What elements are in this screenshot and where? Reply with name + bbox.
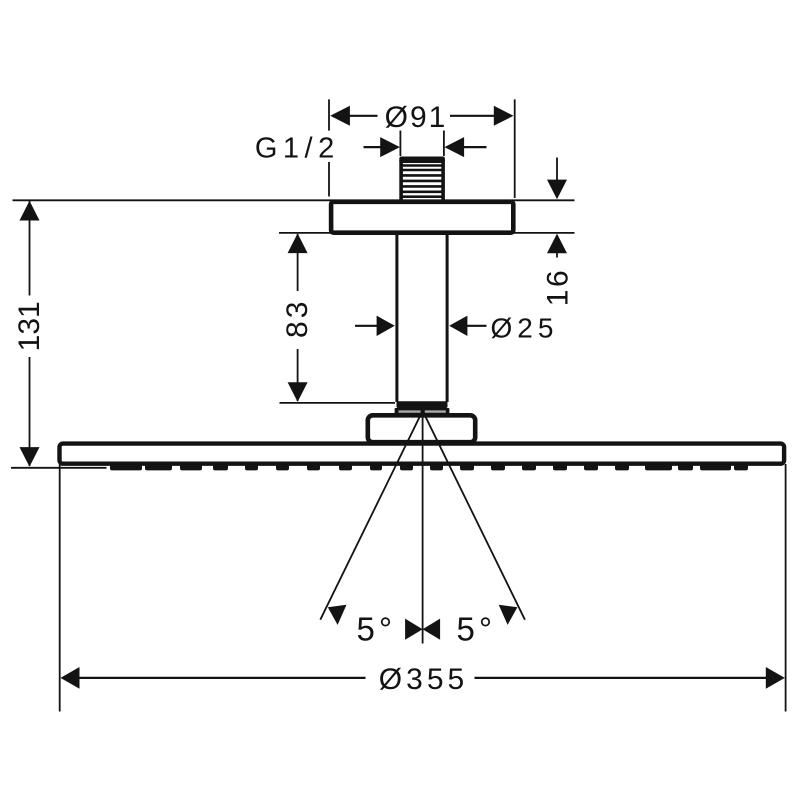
svg-text:Ø91: Ø91 xyxy=(385,101,448,134)
pipe end highlight gaps xyxy=(399,410,421,412)
G1/2 arrows xyxy=(364,146,384,148)
dimension 16 lines xyxy=(556,158,558,182)
svg-text:Ø25: Ø25 xyxy=(491,313,559,344)
dimension O91 line xyxy=(348,115,378,117)
dimension 83 bottom extension line xyxy=(280,402,396,404)
spray left arrowhead xyxy=(328,605,347,625)
dimension 16 arrows xyxy=(547,180,567,200)
pipe end collar xyxy=(397,401,448,408)
svg-text:5°: 5° xyxy=(357,611,397,648)
pipe left wall xyxy=(395,235,398,402)
svg-text:16: 16 xyxy=(541,268,574,306)
spray left line xyxy=(320,411,422,620)
dimension 83 line xyxy=(297,234,299,291)
dimension O91 arrows xyxy=(330,106,350,126)
svg-text:83: 83 xyxy=(281,299,314,338)
svg-text:131: 131 xyxy=(13,301,46,351)
flange (ceiling escutcheon) xyxy=(331,202,513,233)
pipe right wall xyxy=(446,235,449,402)
dimension O355 arrows xyxy=(61,667,80,689)
dimension 131 line xyxy=(29,201,31,296)
spray right arrowhead xyxy=(499,605,518,625)
thread right wall xyxy=(441,160,445,200)
spray nozzle dashes xyxy=(110,464,748,470)
spray angle bowtie arrows xyxy=(405,619,423,640)
dimension 83 arrows xyxy=(288,233,308,253)
flange bottom extension line xyxy=(279,232,575,234)
dimension O25 arrows xyxy=(355,325,378,327)
thread ridges xyxy=(401,164,443,167)
thread top cap xyxy=(399,157,445,164)
dimension O355 extension lines xyxy=(59,464,61,712)
head connector cup xyxy=(368,415,475,442)
spray centerline xyxy=(422,411,424,644)
thread left wall xyxy=(399,160,403,200)
ceiling line xyxy=(13,199,575,201)
shower head plate xyxy=(60,444,785,464)
spray right line xyxy=(423,411,525,620)
dimension O91 extension lines xyxy=(328,99,330,130)
pipe end lower ring xyxy=(395,408,450,415)
svg-text:Ø355: Ø355 xyxy=(379,663,468,696)
dimension 131 bottom extension line xyxy=(11,467,107,469)
dimension 131 arrows xyxy=(20,201,40,221)
svg-text:G1/2: G1/2 xyxy=(255,133,340,165)
dimension O355 line xyxy=(78,677,366,679)
svg-text:5°: 5° xyxy=(457,611,497,648)
G1/2 thread extension lines xyxy=(399,131,401,157)
